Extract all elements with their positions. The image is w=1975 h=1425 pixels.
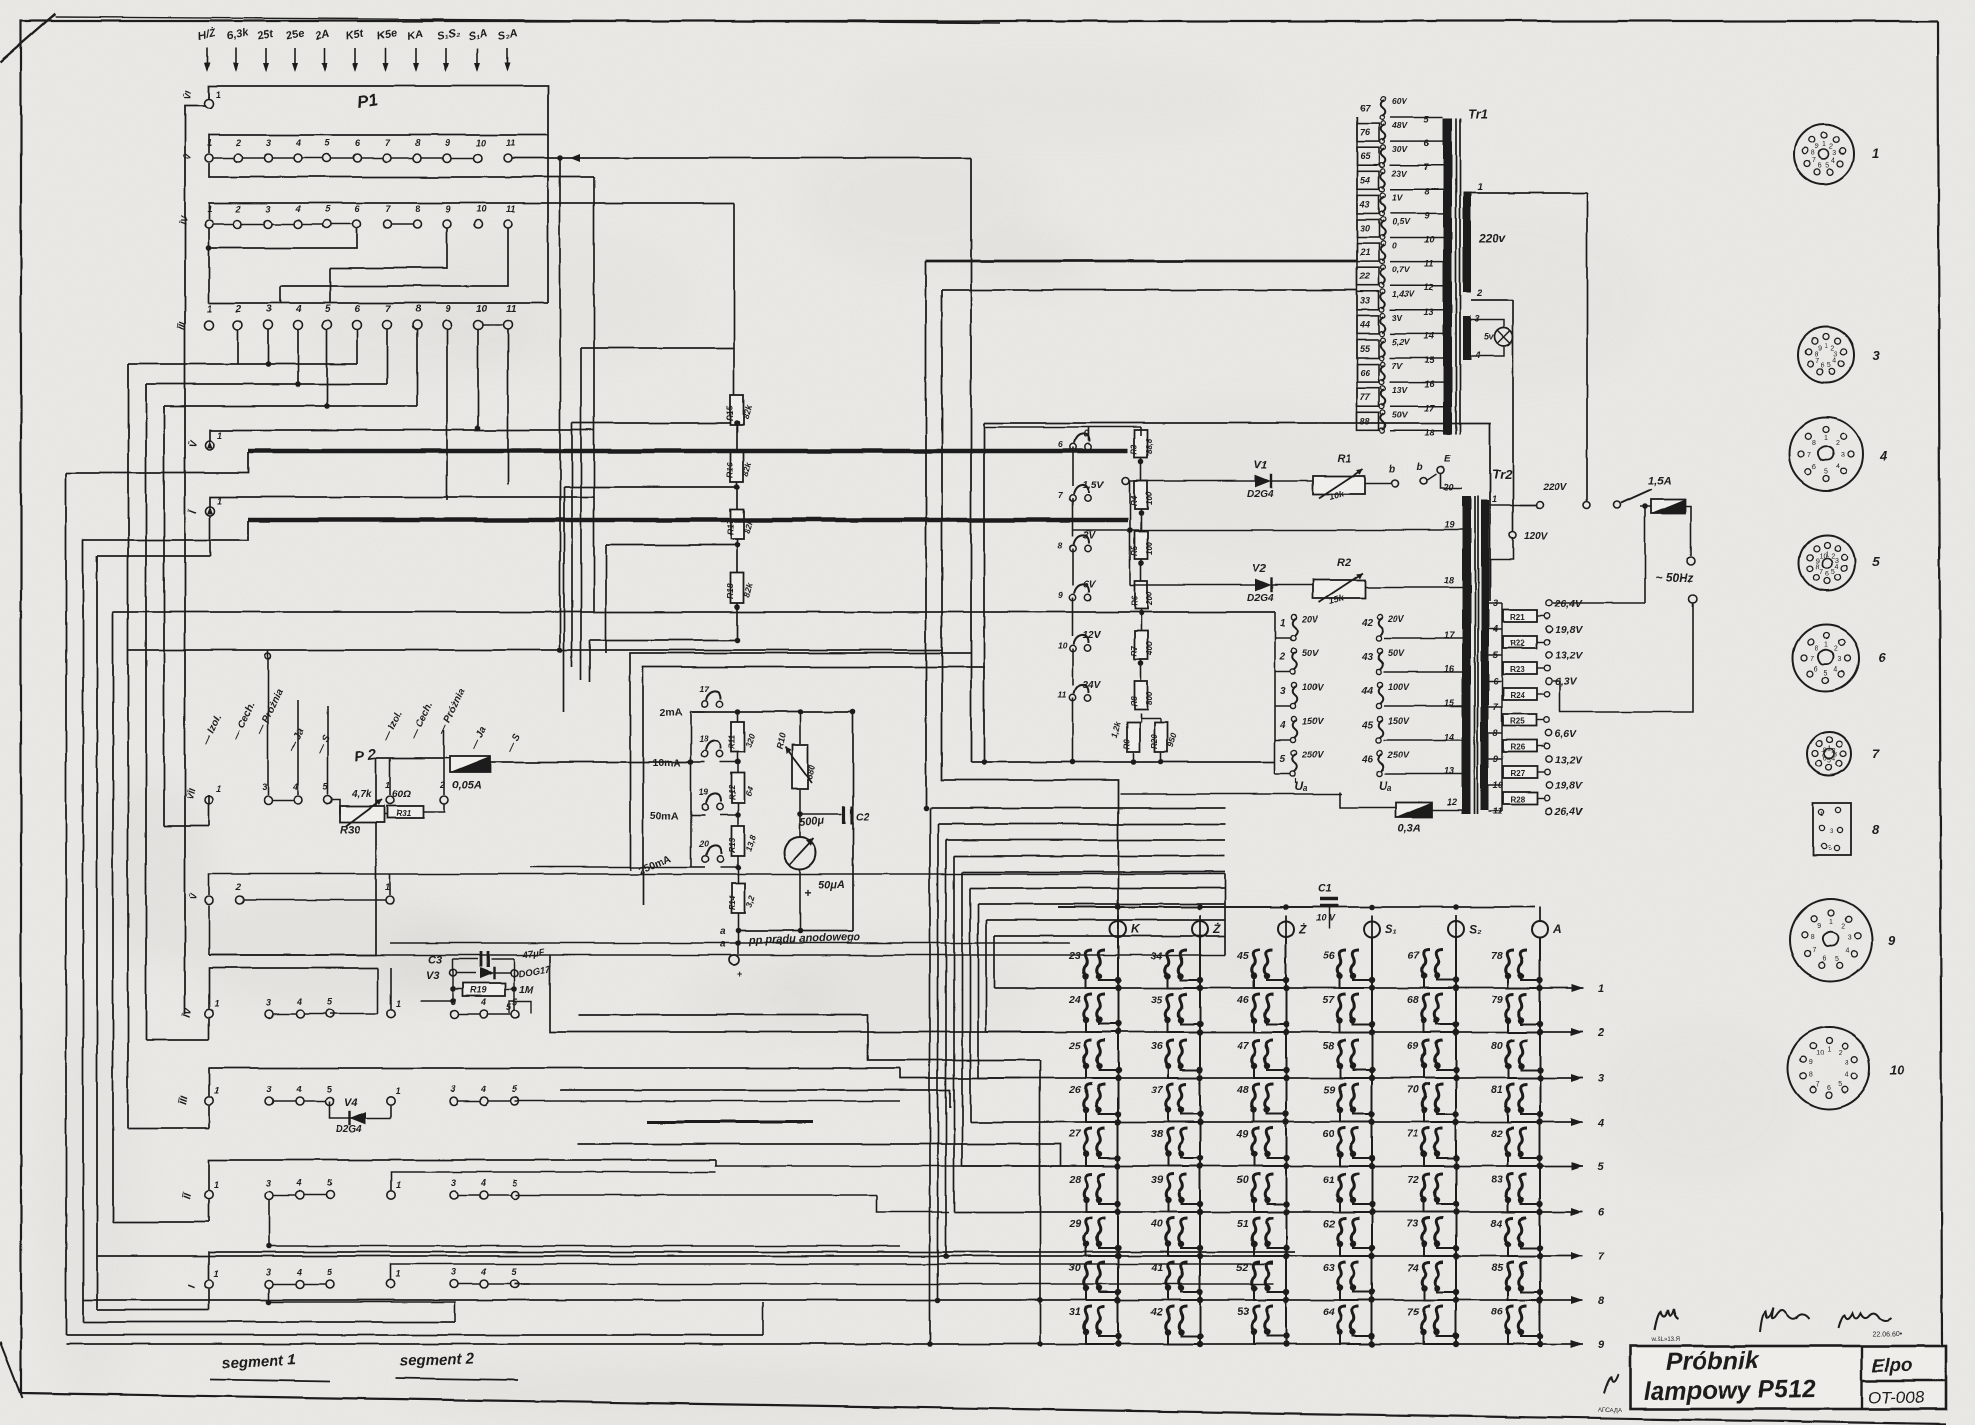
svg-text:100: 100 — [1145, 541, 1154, 555]
svg-text:S₁: S₁ — [1385, 922, 1397, 936]
svg-text:7: 7 — [1813, 158, 1817, 165]
svg-text:7: 7 — [1813, 948, 1817, 955]
svg-text:15: 15 — [1424, 355, 1435, 365]
svg-text:50V: 50V — [1302, 648, 1319, 658]
svg-text:67: 67 — [1360, 103, 1371, 113]
svg-text:66: 66 — [1360, 368, 1371, 378]
svg-text:16: 16 — [1424, 379, 1435, 389]
svg-text:1: 1 — [1822, 141, 1826, 148]
svg-text:4: 4 — [1834, 666, 1838, 673]
svg-text:1: 1 — [1824, 642, 1828, 649]
svg-text:a: a — [720, 939, 726, 950]
cluster rails — [452, 959, 454, 1001]
svg-text:R9: R9 — [1122, 738, 1131, 749]
socket 4 — [1789, 417, 1863, 491]
resistor R7 400 — [1135, 631, 1148, 659]
svg-text:+: + — [804, 886, 811, 900]
svg-text:1: 1 — [396, 1086, 401, 1096]
left wire bundle verticals — [65, 473, 67, 1335]
svg-text:3V: 3V — [1392, 313, 1404, 323]
svg-text:b: b — [1389, 464, 1395, 475]
svg-text:4: 4 — [296, 1084, 302, 1094]
svg-text:9: 9 — [1817, 923, 1821, 930]
meter block frame — [643, 667, 985, 905]
svg-text:17: 17 — [1424, 403, 1435, 413]
svg-text:31: 31 — [1069, 1306, 1081, 1318]
svg-text:C3: C3 — [428, 954, 442, 966]
wire segIV right — [550, 955, 1045, 1032]
svg-text:86: 86 — [1491, 1306, 1503, 1318]
svg-text:5: 5 — [1827, 362, 1831, 369]
svg-text:63: 63 — [1323, 1262, 1335, 1274]
wire — [209, 302, 548, 304]
svg-text:4: 4 — [1832, 158, 1836, 165]
svg-text:3: 3 — [1280, 686, 1286, 697]
svg-text:76: 76 — [1360, 127, 1371, 137]
svg-text:4: 4 — [480, 1178, 486, 1188]
wire 26.4V top to right — [1553, 602, 1645, 604]
svg-text:84: 84 — [1491, 1218, 1503, 1230]
Tr1 primary 220V — [1463, 192, 1471, 292]
svg-text:2: 2 — [1841, 923, 1845, 930]
svg-text:8: 8 — [1598, 1295, 1605, 1307]
svg-text:41: 41 — [1150, 1262, 1163, 1274]
svg-text:6: 6 — [1814, 666, 1818, 673]
svg-text:3: 3 — [266, 204, 271, 214]
svg-text:5: 5 — [325, 304, 331, 315]
svg-text:1: 1 — [207, 304, 213, 315]
contact 76 — [1357, 123, 1379, 141]
svg-text:10: 10 — [1816, 1051, 1824, 1058]
svg-text:7: 7 — [1872, 746, 1880, 761]
svg-text:29: 29 — [1068, 1218, 1081, 1230]
svg-text:V̄ĪI: V̄ĪI — [185, 787, 197, 800]
svg-text:9: 9 — [1424, 210, 1429, 220]
svg-text:R22: R22 — [1510, 639, 1525, 648]
svg-text:19,8V: 19,8V — [1555, 780, 1583, 792]
P1 outer box — [209, 86, 548, 134]
resistor R6 200 — [1135, 581, 1148, 609]
svg-text:R13: R13 — [728, 838, 737, 853]
svg-text:R16: R16 — [725, 462, 735, 478]
title block — [1630, 1346, 1946, 1409]
node &#379; — [1278, 921, 1294, 937]
chain bottom bus — [971, 761, 1275, 763]
svg-text:1: 1 — [1824, 435, 1828, 442]
svg-text:60: 60 — [1323, 1128, 1335, 1140]
svg-text:5: 5 — [1824, 670, 1828, 677]
svg-text:10: 10 — [476, 204, 486, 214]
resistor R23 — [1501, 655, 1503, 668]
svg-text:7: 7 — [1810, 656, 1814, 663]
column bus S&#8322; — [1455, 937, 1457, 1346]
svg-text:11: 11 — [506, 204, 515, 214]
svg-text:R20: R20 — [1150, 734, 1159, 749]
svg-text:24: 24 — [1068, 994, 1081, 1006]
svg-text:1: 1 — [1872, 146, 1879, 161]
svg-text:16: 16 — [1444, 664, 1455, 674]
svg-text:9: 9 — [1058, 590, 1063, 600]
wire row V to right — [512, 157, 971, 159]
svg-text:5: 5 — [1280, 754, 1286, 765]
row IV box — [209, 968, 378, 1009]
socket 3 — [1798, 327, 1854, 383]
svg-text:1: 1 — [1827, 1047, 1831, 1054]
svg-text:6V: 6V — [1083, 580, 1097, 591]
svg-text:Próbnik: Próbnik — [1666, 1346, 1761, 1376]
node A — [1532, 921, 1548, 937]
svg-text:0: 0 — [1392, 241, 1397, 251]
svg-text:R21: R21 — [1510, 613, 1525, 622]
svg-text:6: 6 — [1818, 162, 1822, 169]
column bus &#379; — [1199, 937, 1201, 1346]
svg-text:R2: R2 — [1337, 557, 1351, 569]
svg-text:34: 34 — [1151, 950, 1163, 962]
svg-text:10: 10 — [476, 304, 488, 315]
svg-text:75: 75 — [1407, 1306, 1419, 1318]
svg-text:АГСАДА: АГСАДА — [1598, 1408, 1621, 1414]
svg-text:+: + — [737, 969, 742, 979]
svg-text:segment 2: segment 2 — [400, 1350, 475, 1370]
svg-text:18: 18 — [1424, 427, 1434, 437]
svg-text:8: 8 — [1809, 1072, 1813, 1079]
svg-text:3: 3 — [1838, 656, 1842, 663]
svg-text:53: 53 — [1237, 1306, 1249, 1318]
contact 6 drop — [209, 228, 357, 248]
svg-text:P 2: P 2 — [353, 746, 378, 766]
contact 22 — [1357, 268, 1379, 286]
resistor R16 — [731, 452, 744, 482]
svg-text:5: 5 — [1872, 554, 1880, 569]
wire — [559, 158, 561, 650]
svg-text:4: 4 — [296, 997, 302, 1007]
svg-text:R7: R7 — [1130, 645, 1139, 656]
svg-text:18: 18 — [1444, 575, 1454, 585]
resistor R11 320 — [732, 722, 745, 752]
resistor R20 — [1155, 722, 1168, 752]
resistor R15 — [731, 395, 744, 425]
row line 3 — [978, 1077, 1583, 1079]
row II box — [209, 1160, 716, 1190]
socket 7 — [1807, 732, 1851, 776]
svg-text:14: 14 — [1424, 331, 1434, 341]
svg-text:250V: 250V — [1387, 750, 1410, 760]
resistor R26 — [1501, 733, 1503, 746]
svg-text:51: 51 — [1237, 1218, 1249, 1230]
contact 21 — [1357, 244, 1379, 262]
svg-text:R3: R3 — [1130, 444, 1139, 455]
svg-text:50μA: 50μA — [818, 879, 845, 891]
svg-text:82: 82 — [1491, 1128, 1503, 1140]
svg-text:8: 8 — [415, 138, 420, 148]
wire — [937, 824, 939, 1300]
fuse 0.05A — [450, 756, 490, 772]
svg-text:7: 7 — [1598, 1251, 1605, 1263]
nested horizontals below row III — [128, 363, 357, 365]
svg-text:12: 12 — [1447, 797, 1457, 807]
svg-text:1: 1 — [214, 1180, 219, 1190]
row line 5 — [962, 1165, 1583, 1167]
svg-text:4: 4 — [480, 1267, 486, 1277]
svg-text:48V: 48V — [1391, 120, 1408, 130]
svg-text:5,2V: 5,2V — [1392, 337, 1411, 347]
svg-text:R18: R18 — [725, 583, 735, 599]
svg-text:13,2V: 13,2V — [1555, 754, 1583, 766]
svg-text:2: 2 — [1836, 440, 1840, 447]
svg-text:11: 11 — [1058, 690, 1067, 700]
contact 54 — [1357, 171, 1379, 189]
svg-text:Uₐ: Uₐ — [1378, 779, 1392, 793]
svg-text:34V: 34V — [1083, 680, 1102, 691]
svg-text:50mA: 50mA — [650, 810, 679, 822]
wire rows 7-9 long left — [97, 1255, 946, 1257]
svg-text:400: 400 — [1145, 641, 1154, 656]
svg-text:4: 4 — [1835, 564, 1839, 571]
svg-text:4: 4 — [292, 782, 298, 792]
svg-text:39: 39 — [1151, 1174, 1163, 1186]
svg-text:3: 3 — [1845, 1060, 1849, 1067]
svg-text:30V: 30V — [1392, 144, 1408, 154]
svg-text:64: 64 — [1323, 1306, 1335, 1318]
svg-text:5: 5 — [1831, 569, 1835, 576]
svg-text:48: 48 — [1236, 1084, 1249, 1096]
svg-text:0,5V: 0,5V — [1392, 217, 1411, 227]
svg-text:43: 43 — [1359, 199, 1370, 209]
svg-text:w.šL»13.Я: w.šL»13.Я — [1651, 1337, 1680, 1343]
resistor R9 — [1127, 722, 1140, 752]
svg-text:5v: 5v — [1484, 332, 1495, 342]
svg-text:46: 46 — [1236, 994, 1249, 1006]
svg-text:8: 8 — [1810, 935, 1814, 942]
svg-text:R4: R4 — [1130, 495, 1139, 506]
svg-text:10: 10 — [1424, 235, 1434, 245]
svg-text:Tr1: Tr1 — [1468, 106, 1488, 121]
scan page edge top-left — [0, 14, 55, 62]
svg-text:Ż: Ż — [1298, 921, 1307, 936]
socket 1 — [1794, 124, 1854, 184]
svg-text:50V: 50V — [1388, 648, 1405, 658]
switch blade — [1621, 489, 1652, 503]
svg-text:OT-008: OT-008 — [1868, 1388, 1925, 1407]
column bus A — [1539, 937, 1541, 1346]
svg-text:9: 9 — [1815, 144, 1819, 151]
svg-text:4: 4 — [295, 138, 301, 148]
svg-text:6: 6 — [1812, 464, 1816, 471]
row line 6 — [954, 1211, 1583, 1213]
svg-text:10mA: 10mA — [652, 757, 681, 769]
svg-text:4: 4 — [480, 1084, 486, 1094]
wire — [929, 808, 931, 1344]
svg-text:20: 20 — [1443, 482, 1454, 492]
svg-text:4: 4 — [295, 204, 301, 214]
svg-text:67: 67 — [1407, 950, 1420, 962]
svg-text:3: 3 — [1841, 452, 1845, 459]
svg-text:100: 100 — [1145, 491, 1154, 505]
node S&#8322; — [1448, 921, 1464, 937]
svg-text:2: 2 — [235, 304, 242, 315]
svg-text:3: 3 — [266, 1084, 271, 1094]
svg-text:P1: P1 — [356, 90, 379, 112]
svg-text:19: 19 — [1444, 520, 1454, 530]
svg-text:77: 77 — [1360, 392, 1371, 402]
wire Ua to fuse — [1340, 792, 1397, 808]
row line 1 — [994, 987, 1583, 989]
svg-text:11: 11 — [506, 138, 515, 148]
contact 65 — [1357, 147, 1379, 165]
svg-text:79: 79 — [1491, 994, 1503, 1006]
resistor R5 100 — [1135, 531, 1148, 559]
svg-text:R24: R24 — [1510, 691, 1525, 700]
svg-text:6: 6 — [1058, 439, 1063, 449]
svg-text:7: 7 — [1816, 1081, 1820, 1088]
svg-text:55: 55 — [1360, 344, 1371, 354]
svg-text:R11: R11 — [728, 734, 737, 749]
P2 box top — [209, 758, 376, 955]
wire — [945, 840, 947, 1256]
node K — [1110, 921, 1126, 937]
svg-text:3: 3 — [451, 1084, 456, 1094]
svg-text:R31: R31 — [396, 809, 411, 818]
svg-text:54: 54 — [1360, 175, 1370, 185]
Tr1 core — [1443, 118, 1452, 434]
svg-text:3: 3 — [451, 1267, 456, 1277]
svg-text:88,6: 88,6 — [1145, 438, 1154, 454]
resistor R27 — [1501, 759, 1503, 772]
signatures handwriting — [1655, 1309, 1679, 1330]
svg-text:44: 44 — [1359, 320, 1370, 330]
svg-text:4: 4 — [295, 304, 302, 315]
wire from VI down left side — [185, 106, 205, 1014]
svg-text:45: 45 — [1361, 720, 1374, 731]
svg-text:9: 9 — [1818, 345, 1822, 352]
svg-text:15: 15 — [1444, 698, 1455, 708]
wire vertical 1040 — [1039, 1060, 1041, 1344]
svg-text:V3: V3 — [426, 970, 439, 982]
svg-text:61: 61 — [1323, 1174, 1335, 1186]
svg-text:S₂: S₂ — [1469, 922, 1482, 936]
contact 43 — [1357, 195, 1379, 213]
tap 120V — [1510, 532, 1517, 539]
wire long y612 — [113, 611, 1275, 613]
wire mains to Tr2 pin1 — [1486, 504, 1536, 506]
svg-text:220v: 220v — [1478, 231, 1507, 245]
svg-text:13,2V: 13,2V — [1555, 650, 1583, 662]
wire — [953, 856, 955, 1212]
svg-text:9: 9 — [1598, 1339, 1605, 1351]
svg-text:26: 26 — [1068, 1084, 1081, 1096]
svg-text:6: 6 — [1878, 650, 1886, 665]
svg-text:1: 1 — [214, 999, 219, 1009]
svg-text:10 V: 10 V — [1316, 913, 1336, 923]
svg-text:43: 43 — [1361, 652, 1374, 663]
svg-text:35: 35 — [1151, 994, 1163, 1006]
row III box — [209, 1068, 900, 1096]
svg-text:~ 50Hz: ~ 50Hz — [1655, 571, 1693, 585]
svg-text:8: 8 — [1424, 186, 1429, 196]
svg-text:3: 3 — [1598, 1073, 1604, 1085]
contact 77 — [1357, 388, 1379, 406]
contact drops row III — [237, 330, 239, 364]
svg-text:1M: 1M — [519, 984, 534, 996]
svg-text:0,05A: 0,05A — [452, 779, 481, 791]
svg-text:V2: V2 — [1252, 563, 1265, 575]
svg-text:36: 36 — [1151, 1040, 1163, 1052]
svg-text:45: 45 — [1236, 950, 1249, 962]
svg-text:150V: 150V — [1388, 716, 1410, 726]
svg-text:K: K — [1131, 922, 1141, 936]
svg-text:b: b — [1417, 462, 1423, 473]
svg-text:3V: 3V — [1083, 530, 1097, 541]
svg-text:5: 5 — [1826, 162, 1830, 169]
svg-text:13V: 13V — [1392, 385, 1408, 395]
top node wire — [691, 711, 853, 713]
wire nested loops left of matrix — [578, 1015, 1040, 1060]
contact 30 — [1357, 220, 1379, 238]
svg-text:4: 4 — [1279, 720, 1286, 731]
svg-text:4: 4 — [1597, 1117, 1604, 1129]
svg-text:2: 2 — [235, 138, 241, 148]
svg-text:9: 9 — [445, 138, 450, 148]
svg-text:42: 42 — [1361, 618, 1374, 629]
contact 33 — [1357, 292, 1379, 310]
resistor R25 — [1501, 707, 1503, 720]
svg-text:57: 57 — [1323, 994, 1336, 1006]
svg-text:2: 2 — [1834, 646, 1838, 653]
wire Tr1 pin2 down — [1512, 300, 1514, 531]
svg-text:19,8V: 19,8V — [1555, 624, 1583, 636]
svg-text:a: a — [720, 926, 726, 937]
svg-text:R5: R5 — [1130, 545, 1139, 556]
svg-text:30: 30 — [1069, 1262, 1081, 1274]
svg-text:11: 11 — [1424, 259, 1433, 269]
resistor R18 — [731, 573, 744, 603]
svg-text:R15: R15 — [725, 405, 735, 421]
svg-text:17: 17 — [699, 684, 710, 694]
svg-text:1: 1 — [1829, 919, 1833, 926]
svg-text:6: 6 — [1825, 571, 1829, 578]
svg-text:40: 40 — [1150, 1218, 1163, 1230]
svg-text:6: 6 — [1598, 1207, 1605, 1219]
svg-text:4: 4 — [1836, 464, 1840, 471]
socket 6 — [1793, 625, 1859, 691]
svg-text:14: 14 — [1444, 732, 1454, 742]
svg-text:1: 1 — [1598, 983, 1604, 995]
svg-text:8: 8 — [1872, 822, 1880, 837]
svg-text:250V: 250V — [1301, 750, 1324, 760]
svg-text:6: 6 — [1823, 956, 1827, 963]
svg-text:8: 8 — [1816, 564, 1820, 571]
svg-text:20: 20 — [698, 839, 709, 849]
svg-text:0,3A: 0,3A — [1398, 823, 1421, 835]
svg-text:8: 8 — [1811, 150, 1815, 157]
svg-text:4: 4 — [296, 1267, 302, 1277]
svg-text:3: 3 — [1872, 348, 1880, 363]
svg-text:85: 85 — [1491, 1262, 1503, 1274]
svg-text:26,4V: 26,4V — [1554, 806, 1583, 818]
svg-text:9: 9 — [1809, 1060, 1813, 1067]
svg-text:60V: 60V — [1392, 96, 1408, 106]
svg-text:12V: 12V — [1083, 630, 1102, 641]
svg-text:1,5A: 1,5A — [1648, 475, 1671, 487]
svg-text:R1: R1 — [1337, 453, 1351, 465]
wire — [593, 177, 595, 612]
svg-text:R6: R6 — [1130, 595, 1139, 606]
row line 7 — [946, 1255, 1583, 1257]
svg-text:800: 800 — [1145, 691, 1154, 705]
svg-text:5: 5 — [1824, 469, 1828, 476]
svg-text:E: E — [1444, 454, 1451, 465]
wire — [977, 904, 979, 1078]
